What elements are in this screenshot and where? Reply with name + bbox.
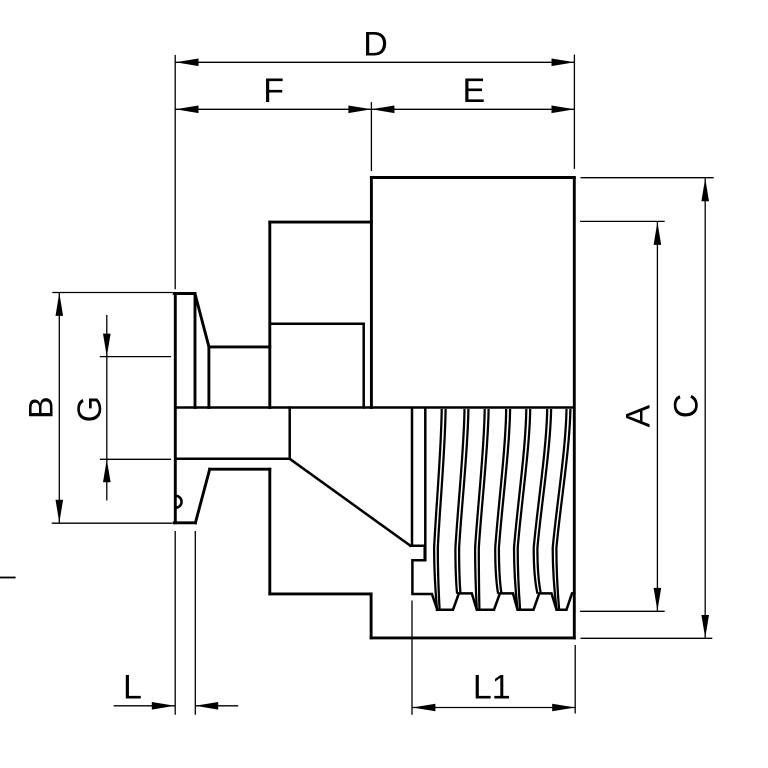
part outline thick lines: [174, 178, 574, 638]
weld bead semicircle: [176, 496, 182, 508]
svg-text:L1: L1: [473, 669, 511, 707]
hex body right edge: [573, 178, 576, 638]
arrow G bottom outside: [103, 459, 111, 482]
stray centerline fragment at left edge: [0, 577, 16, 579]
arrow L right outside: [195, 702, 218, 710]
dimension line A: [656, 222, 658, 611]
chamfer upper: [195, 294, 209, 347]
bore bottom line: [175, 458, 289, 461]
extension line B bottom: [52, 522, 173, 524]
svg-text:A: A: [620, 405, 658, 428]
stem top edge: [209, 345, 270, 348]
dimension line L left tail: [114, 705, 175, 707]
inner part lines: [175, 324, 574, 610]
arrow A bottom: [654, 588, 662, 611]
extension line C top: [581, 177, 714, 179]
arrow D left: [176, 59, 199, 67]
extension line between F and E: [370, 102, 372, 171]
stem bottom edge: [210, 468, 270, 471]
collar left edge: [268, 222, 271, 407]
chamfer lower: [195, 469, 209, 523]
arrowheads: [56, 59, 710, 712]
extension line L1 left: [411, 601, 413, 715]
extension line left of D and F: [174, 55, 176, 289]
arrow L left outside: [152, 702, 175, 710]
svg-text:C: C: [667, 394, 705, 419]
thread line pair 2: [455, 409, 464, 594]
dimension line B: [58, 293, 60, 523]
flange bottom edge: [174, 521, 195, 524]
arrow C bottom: [701, 615, 709, 638]
thread line pair 1: [434, 409, 442, 609]
chamfer vertical upper: [207, 347, 210, 408]
flange left edge: [174, 294, 177, 523]
thread line pair 6: [534, 409, 548, 594]
dimension line C: [704, 178, 706, 638]
hex body bottom edge: [371, 636, 574, 639]
thread line pair 7: [553, 409, 567, 609]
dimension line G: [106, 315, 108, 501]
arrow G top outside: [103, 334, 111, 357]
arrow A top: [654, 222, 662, 245]
dimension line L right tail: [195, 705, 238, 707]
arrow L1 right: [552, 704, 575, 712]
flange right edge upper: [194, 294, 197, 408]
thread relief vertical 1: [411, 408, 414, 546]
hex body left edge: [370, 178, 373, 408]
collar top edge: [270, 221, 372, 224]
extension line G top: [100, 356, 171, 358]
dimension line L1: [412, 707, 575, 709]
svg-text:D: D: [363, 26, 388, 64]
extension line G bottom: [100, 458, 171, 460]
collar left edge lower: [268, 469, 271, 594]
extension line A bottom: [580, 610, 665, 612]
arrow E right: [552, 106, 575, 114]
dimension and extension lines: [52, 55, 714, 715]
svg-text:E: E: [462, 72, 485, 110]
svg-text:B: B: [22, 396, 60, 419]
arrow F right: [348, 106, 371, 114]
extension line A top: [580, 220, 665, 222]
collar bottom edge: [270, 592, 371, 595]
thread teeth profile: [437, 593, 574, 609]
thread relief vertical 2: [424, 408, 427, 560]
arrow E left: [371, 106, 394, 114]
thread relief notch: [411, 546, 438, 610]
arrow B top: [56, 293, 64, 316]
bore top line: [175, 406, 574, 409]
dimension line D: [176, 61, 575, 63]
svg-text:L: L: [123, 668, 142, 706]
extension line right of D and E: [573, 55, 575, 169]
bore right edge: [288, 408, 291, 459]
thread line pair 3: [475, 409, 485, 609]
dimension line E: [371, 108, 574, 110]
hex body lower-left step: [370, 594, 373, 638]
hex body top edge: [371, 176, 574, 179]
arrow D right: [552, 59, 575, 67]
thread line pair 5: [514, 409, 526, 609]
flange top edge: [174, 292, 195, 295]
extension line L left: [174, 531, 176, 715]
dimension line F: [176, 108, 372, 110]
thread helix lines: [434, 409, 570, 610]
cone slant: [290, 459, 411, 546]
extension line L1 right: [574, 645, 576, 714]
svg-text:F: F: [263, 72, 284, 110]
thread line pair 4: [495, 409, 506, 594]
arrow L1 left: [412, 704, 435, 712]
extension line C bottom: [581, 637, 713, 639]
arrow C top: [701, 178, 709, 201]
svg-text:G: G: [71, 396, 109, 422]
arrow F left: [176, 106, 199, 114]
arrow B bottom: [56, 500, 64, 523]
extension line B top: [52, 292, 172, 294]
extension line L right: [194, 531, 196, 715]
nut recess corner: [270, 324, 364, 408]
